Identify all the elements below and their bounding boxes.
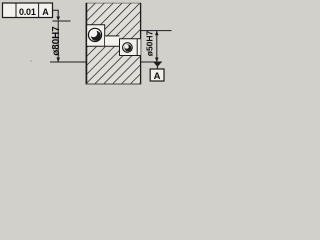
leader from frame	[53, 10, 59, 17]
feature control frame	[3, 3, 53, 18]
speck	[30, 60, 31, 61]
svg-text:A: A	[154, 71, 161, 82]
bore 2 left wall	[119, 39, 121, 56]
extension line bottom right	[141, 61, 162, 63]
bore 1 end wall	[104, 25, 106, 47]
part left edge	[85, 3, 87, 85]
svg-text:ø50H7: ø50H7	[145, 30, 155, 56]
frame divider 1	[15, 3, 17, 18]
bore 1 cavity	[87, 25, 105, 47]
dimension line phi50	[156, 31, 158, 62]
frame divider 2	[38, 3, 40, 18]
bore 2 inner step	[136, 39, 138, 56]
svg-text:0.01: 0.01	[19, 7, 36, 17]
bore 1 top edge	[86, 24, 105, 26]
datum triangle	[154, 62, 162, 67]
part right edge	[140, 3, 142, 85]
circle detail in bore 1	[88, 28, 101, 41]
leader arrowhead	[56, 17, 60, 22]
bore 2 centerline stub	[119, 46, 122, 48]
bore 2 cavity	[119, 39, 140, 56]
svg-text:A: A	[42, 7, 49, 17]
arrowhead bottom phi80	[56, 58, 60, 63]
arrowhead top phi50	[155, 31, 159, 35]
arrowhead bottom phi50	[155, 58, 159, 63]
dimension line phi80	[57, 21, 59, 62]
connecting channel cavity	[105, 36, 119, 47]
part bottom edge	[86, 83, 141, 85]
extension line top left	[53, 20, 71, 22]
svg-text:ø80H7: ø80H7	[51, 26, 62, 56]
paper background	[0, 0, 172, 90]
extension line top right	[141, 30, 172, 32]
bore1 and channel bottom edge	[86, 45, 119, 47]
circle detail in bore 2	[123, 43, 133, 53]
bore 2 top edge	[119, 38, 140, 40]
channel top edge	[105, 35, 120, 37]
part body hatched section	[86, 3, 141, 85]
extension line bottom left	[50, 61, 86, 63]
datum stem	[156, 67, 158, 70]
bore 2 bottom edge	[119, 55, 140, 57]
datum box A	[150, 69, 164, 81]
part top edge	[86, 2, 141, 4]
